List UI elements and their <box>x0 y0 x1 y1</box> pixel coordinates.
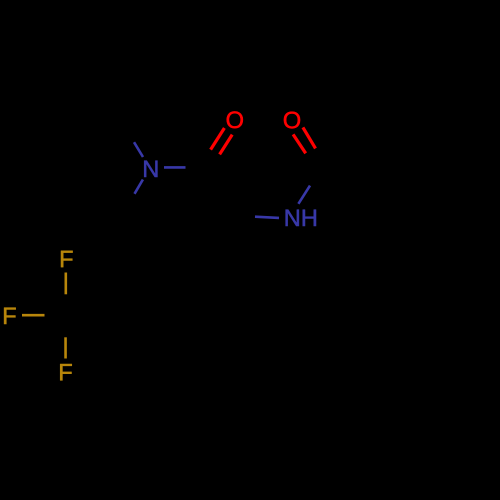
wire bond N2 to C2 half (blue) <box>298 186 310 204</box>
wire double bond C2=O2 line A (red half) <box>293 134 306 153</box>
atom N2 (amide NH) label <box>286 210 316 226</box>
atom O2 (benzamide carbonyl oxygen) label <box>284 112 300 129</box>
wire double bond C1=O1 line B (red half) <box>220 135 233 155</box>
atom F2 (left fluorine) label <box>4 308 16 324</box>
wire bond N1 upper-left half (blue) <box>134 142 143 157</box>
atom O1 (amide carbonyl oxygen) label <box>227 111 243 128</box>
wire bond C3-F1 half (gold) <box>65 273 68 295</box>
wire bond C3-F2 half (gold) <box>22 314 45 317</box>
wire bond N1 to carbonyl C1 half (blue) <box>164 166 186 169</box>
wire bond N1 lower-left half (blue) <box>135 180 143 194</box>
atom N1 (ring nitrogen) label <box>144 161 157 177</box>
wire double bond C2=O2 line B (red half) <box>303 127 316 148</box>
wire bond C-alpha to N2 half (blue) <box>255 217 279 218</box>
atom F3 (bottom fluorine) label <box>60 364 72 380</box>
wire bond C3-F3 half (gold) <box>64 337 67 358</box>
wire double bond C1=O1 line A (red half) <box>211 128 225 150</box>
atom F1 (top fluorine) label <box>61 251 73 267</box>
